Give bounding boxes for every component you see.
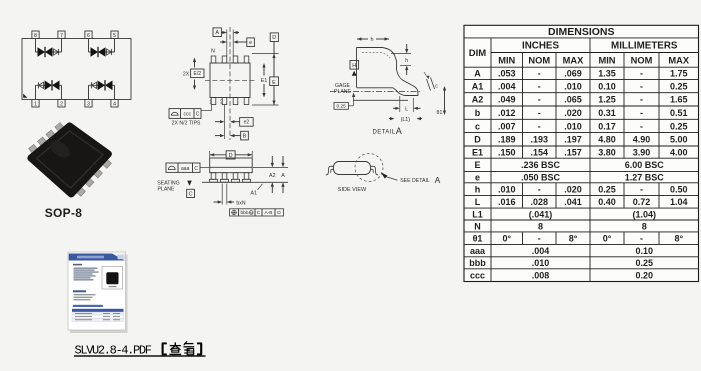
svg-text:.028: .028 bbox=[530, 197, 548, 207]
top view lead 1 (top row) bbox=[211, 56, 216, 63]
TVS diode pair D2 (pins 6-5) with wires bbox=[89, 39, 115, 58]
pin 3 bbox=[85, 100, 92, 108]
datum A box with leader arrows bbox=[213, 28, 239, 56]
pin number 2 bbox=[220, 100, 223, 106]
svg-text:-: - bbox=[538, 81, 541, 91]
svg-text:c: c bbox=[435, 83, 438, 89]
svg-text:SIDE VIEW: SIDE VIEW bbox=[338, 187, 367, 193]
svg-text:h: h bbox=[475, 184, 481, 194]
svg-text:L1: L1 bbox=[472, 209, 483, 219]
svg-text:aaa: aaa bbox=[470, 246, 486, 256]
svg-text:.197: .197 bbox=[564, 135, 582, 145]
svg-text:A1: A1 bbox=[472, 81, 484, 91]
svg-text:C: C bbox=[194, 166, 198, 172]
side view dimension D bbox=[210, 151, 253, 159]
svg-text:0.10: 0.10 bbox=[635, 246, 653, 256]
dimension 2X E/2 bbox=[183, 58, 204, 91]
PDF datasheet thumbnail bbox=[68, 252, 128, 333]
pin 6 bbox=[85, 31, 92, 39]
svg-text:.150: .150 bbox=[498, 147, 516, 157]
svg-text:.020: .020 bbox=[564, 184, 582, 194]
pin 8 bbox=[32, 31, 39, 39]
svg-text:4: 4 bbox=[113, 102, 116, 108]
pin 7 bbox=[58, 31, 65, 39]
svg-text:-: - bbox=[538, 95, 541, 105]
svg-text:0°: 0° bbox=[502, 233, 511, 243]
svg-text:.010: .010 bbox=[564, 121, 582, 131]
dimensions table bbox=[464, 25, 699, 281]
datum D box bbox=[270, 33, 278, 42]
pin number 1 bbox=[209, 100, 212, 106]
detail A: lead profile bbox=[357, 48, 419, 96]
svg-text:-: - bbox=[538, 233, 541, 243]
datum H box with triangle pointer bbox=[350, 61, 359, 76]
SEATING PLANE note bbox=[157, 180, 194, 197]
svg-text:NOM: NOM bbox=[631, 55, 653, 65]
CJK glyph kan bbox=[183, 341, 194, 354]
seating line under detail bbox=[353, 99, 408, 101]
svg-text:1.27 BSC: 1.27 BSC bbox=[625, 173, 665, 183]
side view left lead bbox=[326, 166, 334, 175]
svg-text:-: - bbox=[640, 81, 643, 91]
svg-text:.193: .193 bbox=[530, 135, 548, 145]
note 2X N/2 TIPS bbox=[172, 121, 201, 127]
gage plane dashed line bbox=[330, 91, 421, 93]
svg-text:-: - bbox=[538, 184, 541, 194]
svg-text:C: C bbox=[257, 210, 261, 216]
right extension line (body top) bbox=[253, 166, 288, 168]
svg-text:M: M bbox=[250, 211, 253, 215]
feature control frame bbb M|C|A-B|D bbox=[230, 209, 284, 216]
svg-text:bxN: bxN bbox=[236, 200, 245, 206]
svg-text:.189: .189 bbox=[498, 135, 516, 145]
svg-text:1: 1 bbox=[34, 102, 37, 108]
svg-text:bbb: bbb bbox=[240, 210, 248, 216]
svg-text:-: - bbox=[640, 121, 643, 131]
svg-text:A2: A2 bbox=[472, 95, 484, 105]
pin 5 bbox=[111, 31, 118, 39]
svg-text:0.40: 0.40 bbox=[598, 197, 616, 207]
svg-text:0.72: 0.72 bbox=[633, 197, 651, 207]
svg-text:C: C bbox=[189, 191, 193, 197]
svg-text:.007: .007 bbox=[498, 121, 516, 131]
svg-text:θ1: θ1 bbox=[473, 233, 483, 243]
svg-text:.012: .012 bbox=[498, 108, 516, 118]
top view lead 4 (top row) bbox=[244, 56, 249, 63]
svg-text:.050 BSC: .050 BSC bbox=[521, 173, 561, 183]
svg-text:h: h bbox=[405, 58, 408, 64]
side view lead 2 bbox=[220, 173, 228, 183]
dimension E (lead span) bbox=[270, 42, 279, 106]
svg-text:3: 3 bbox=[87, 102, 90, 108]
dimension theta1 (lead angle) bbox=[437, 86, 447, 116]
label SOP-8 bbox=[45, 206, 83, 220]
svg-text:.053: .053 bbox=[498, 69, 516, 79]
svg-text:5: 5 bbox=[113, 33, 116, 39]
svg-text:E1: E1 bbox=[261, 78, 268, 84]
svg-text:8: 8 bbox=[642, 221, 647, 231]
seating plane line bbox=[202, 181, 288, 183]
svg-text:DETAIL: DETAIL bbox=[373, 130, 396, 136]
svg-text:0.31: 0.31 bbox=[598, 108, 616, 118]
svg-text:-: - bbox=[538, 69, 541, 79]
svg-text:θ1: θ1 bbox=[437, 110, 443, 116]
svg-text:MILLIMETERS: MILLIMETERS bbox=[611, 41, 678, 52]
svg-text:MAX: MAX bbox=[563, 55, 584, 65]
dimension A2 bbox=[269, 156, 276, 193]
pin 4 bbox=[111, 100, 118, 108]
svg-text:0.10: 0.10 bbox=[598, 81, 616, 91]
label SEE DETAIL A bbox=[400, 175, 440, 185]
svg-text:5.00: 5.00 bbox=[670, 135, 688, 145]
svg-text:N: N bbox=[211, 49, 215, 55]
svg-text:.065: .065 bbox=[564, 95, 582, 105]
dimension L bbox=[393, 96, 421, 113]
svg-text:1.75: 1.75 bbox=[670, 69, 688, 79]
svg-text:2: 2 bbox=[220, 100, 223, 106]
svg-text:A-B: A-B bbox=[265, 210, 273, 216]
svg-text:(1.04): (1.04) bbox=[632, 209, 656, 219]
0.25 gage offset box bbox=[334, 93, 355, 110]
svg-text:MIN: MIN bbox=[598, 55, 615, 65]
top view lead 1 (bottom row) bbox=[211, 98, 216, 105]
svg-text:8: 8 bbox=[538, 221, 543, 231]
pin 2 bbox=[58, 100, 65, 108]
svg-text:6.00 BSC: 6.00 BSC bbox=[625, 160, 665, 170]
svg-text:0.25: 0.25 bbox=[670, 81, 688, 91]
top view lead 4 (bottom row) bbox=[244, 98, 249, 105]
svg-text:-: - bbox=[640, 69, 643, 79]
svg-text:C: C bbox=[196, 112, 200, 118]
svg-text:1.04: 1.04 bbox=[670, 197, 688, 207]
svg-text:E1: E1 bbox=[472, 147, 483, 157]
pin 2 centerline extension bbox=[224, 105, 226, 140]
svg-text:4.90: 4.90 bbox=[633, 135, 651, 145]
svg-text:0.25: 0.25 bbox=[337, 104, 347, 110]
svg-text:D: D bbox=[277, 210, 281, 216]
svg-text:2X N/2 TIPS: 2X N/2 TIPS bbox=[172, 121, 201, 127]
svg-text:1: 1 bbox=[209, 100, 212, 106]
detail reference dashed circle bbox=[355, 154, 383, 182]
label DETAIL A bbox=[373, 126, 402, 136]
svg-text:SEATING: SEATING bbox=[157, 180, 179, 186]
label SIDE VIEW bbox=[338, 187, 367, 193]
svg-text:E: E bbox=[272, 80, 276, 86]
side view right lead bbox=[370, 166, 378, 175]
svg-text:B: B bbox=[243, 134, 247, 140]
svg-text:N: N bbox=[474, 221, 481, 231]
svg-text:e: e bbox=[475, 173, 480, 183]
svg-text:.010: .010 bbox=[498, 184, 516, 194]
svg-text:0.20: 0.20 bbox=[635, 270, 653, 280]
svg-text:-: - bbox=[640, 184, 643, 194]
svg-text:-: - bbox=[640, 95, 643, 105]
IC outline (schematic body) bbox=[22, 39, 131, 100]
svg-text:A: A bbox=[215, 30, 219, 36]
svg-text:.010: .010 bbox=[532, 258, 550, 268]
TVS diode pair D1 (pins 8-7) with wires bbox=[36, 39, 62, 58]
svg-text:INCHES: INCHES bbox=[522, 41, 559, 52]
svg-text:0.50: 0.50 bbox=[670, 184, 688, 194]
dimension A bbox=[281, 156, 285, 193]
CJK glyph cha bbox=[169, 342, 181, 354]
svg-text:A1: A1 bbox=[251, 190, 258, 196]
feature control frame aaa|C bbox=[166, 163, 210, 172]
side view lead 3 bbox=[231, 173, 239, 183]
svg-text:8°: 8° bbox=[674, 233, 683, 243]
svg-text:1.65: 1.65 bbox=[670, 95, 688, 105]
svg-text:(L1): (L1) bbox=[401, 117, 411, 123]
top view lead 3 (top row) bbox=[233, 56, 238, 63]
dimension (L1) bbox=[389, 117, 422, 123]
svg-text:.016: .016 bbox=[498, 197, 516, 207]
svg-text:A2: A2 bbox=[269, 173, 276, 179]
top view: vertical centerline bbox=[229, 27, 231, 140]
dimension b x N bbox=[214, 184, 246, 207]
top view lead 2 (bottom row) bbox=[222, 98, 227, 105]
link underline bbox=[74, 355, 206, 357]
link text SLVU2.8-4.PDF bbox=[75, 343, 152, 357]
side view thumbnail body bbox=[334, 162, 371, 175]
svg-text:8°: 8° bbox=[569, 233, 578, 243]
svg-text:4.00: 4.00 bbox=[670, 147, 688, 157]
dimension e2 bbox=[215, 118, 253, 127]
svg-text:ccc: ccc bbox=[183, 112, 191, 118]
top view: horizontal centerline bbox=[205, 79, 255, 81]
svg-text:7: 7 bbox=[60, 33, 63, 39]
svg-text:L: L bbox=[405, 107, 408, 113]
svg-text:e: e bbox=[249, 40, 252, 46]
TVS diode pair D3 (pins 1-2) with wires bbox=[36, 80, 62, 99]
svg-text:.236 BSC: .236 BSC bbox=[521, 160, 561, 170]
svg-text:0.17: 0.17 bbox=[598, 121, 616, 131]
svg-text:2X: 2X bbox=[183, 72, 190, 78]
svg-text:-: - bbox=[538, 108, 541, 118]
svg-text:3.80: 3.80 bbox=[598, 147, 616, 157]
svg-text:DIM: DIM bbox=[469, 48, 487, 59]
pin count label N bbox=[211, 49, 215, 55]
SOP-8 package 3D photo bbox=[29, 123, 112, 197]
svg-text:H: H bbox=[352, 63, 356, 69]
svg-text:SEE DETAIL: SEE DETAIL bbox=[400, 178, 430, 184]
svg-text:e2: e2 bbox=[244, 120, 250, 126]
svg-text:b: b bbox=[475, 108, 481, 118]
svg-text:A: A bbox=[474, 69, 481, 79]
svg-text:3.90: 3.90 bbox=[633, 147, 651, 157]
svg-text:.069: .069 bbox=[564, 69, 582, 79]
svg-text:.020: .020 bbox=[564, 108, 582, 118]
svg-text:.008: .008 bbox=[532, 270, 550, 280]
svg-text:.004: .004 bbox=[498, 81, 516, 91]
svg-text:0.25: 0.25 bbox=[670, 121, 688, 131]
svg-text:-: - bbox=[538, 121, 541, 131]
svg-text:4.80: 4.80 bbox=[598, 135, 616, 145]
detail A: dimension h (right chamfer) bbox=[391, 44, 411, 75]
top view lead 3 (bottom row) bbox=[233, 98, 238, 105]
svg-text:.049: .049 bbox=[498, 95, 516, 105]
svg-text:.157: .157 bbox=[564, 147, 582, 157]
svg-text:MAX: MAX bbox=[668, 55, 689, 65]
svg-text:h: h bbox=[370, 37, 373, 43]
svg-text:aaa: aaa bbox=[181, 166, 190, 172]
svg-text:A: A bbox=[435, 175, 441, 185]
svg-text:PLANE: PLANE bbox=[334, 89, 352, 95]
svg-text:A: A bbox=[396, 126, 402, 136]
TVS diode pair D4 (pins 3-4) with wires bbox=[89, 80, 115, 99]
svg-text:PLANE: PLANE bbox=[157, 187, 175, 193]
svg-text:bbb: bbb bbox=[469, 258, 486, 268]
detail A: dimension h (top) bbox=[357, 37, 389, 43]
side view lead 4 bbox=[242, 173, 250, 183]
GAGE PLANE note bbox=[334, 83, 352, 95]
svg-text:.004: .004 bbox=[532, 246, 550, 256]
svg-text:DIMENSIONS: DIMENSIONS bbox=[548, 26, 615, 38]
svg-text:L: L bbox=[475, 197, 481, 207]
svg-text:0.51: 0.51 bbox=[670, 108, 688, 118]
svg-text:ccc: ccc bbox=[470, 270, 485, 280]
CJK bracket open bbox=[162, 343, 167, 354]
svg-text:(.041): (.041) bbox=[529, 209, 553, 219]
svg-text:.154: .154 bbox=[530, 147, 548, 157]
svg-text:-: - bbox=[640, 108, 643, 118]
svg-text:8: 8 bbox=[34, 33, 37, 39]
svg-text:0.25: 0.25 bbox=[598, 184, 616, 194]
svg-text:A: A bbox=[281, 173, 285, 179]
svg-text:.041: .041 bbox=[564, 197, 582, 207]
svg-text:MIN: MIN bbox=[498, 55, 515, 65]
feature control frame ccc|C bbox=[169, 105, 212, 119]
pin 1 bbox=[32, 100, 39, 108]
side view package body bbox=[210, 158, 253, 173]
top view package body bbox=[210, 63, 250, 98]
svg-text:E: E bbox=[474, 160, 480, 170]
svg-text:1.35: 1.35 bbox=[598, 69, 616, 79]
svg-text:1.25: 1.25 bbox=[598, 95, 616, 105]
dimension A1 bbox=[251, 184, 263, 197]
svg-text:0.25: 0.25 bbox=[635, 258, 653, 268]
svg-text:0°: 0° bbox=[603, 233, 612, 243]
dimension e (pin pitch) box bbox=[220, 38, 254, 47]
svg-text:2: 2 bbox=[60, 102, 63, 108]
datum B box bbox=[215, 131, 248, 140]
SEE DETAIL A leader arrow bbox=[381, 172, 398, 180]
svg-text:E/2: E/2 bbox=[194, 71, 202, 77]
svg-text:SOP-8: SOP-8 bbox=[45, 206, 83, 220]
svg-text:c: c bbox=[475, 121, 480, 131]
svg-text:D: D bbox=[272, 35, 276, 41]
top view lead 2 (top row) bbox=[222, 56, 227, 63]
svg-text:-: - bbox=[640, 233, 643, 243]
dimension E1 (body width) bbox=[259, 63, 270, 98]
dimension c (lead thickness) bbox=[424, 72, 438, 91]
svg-text:D: D bbox=[474, 135, 481, 145]
extension lines right (lead tips) bbox=[252, 54, 279, 106]
CJK bracket close bbox=[197, 343, 202, 354]
svg-text:.010: .010 bbox=[564, 81, 582, 91]
pin 1 indicator mark bbox=[23, 94, 27, 98]
svg-text:NOM: NOM bbox=[528, 55, 550, 65]
side view lead 1 bbox=[209, 173, 217, 183]
svg-text:6: 6 bbox=[87, 33, 90, 39]
